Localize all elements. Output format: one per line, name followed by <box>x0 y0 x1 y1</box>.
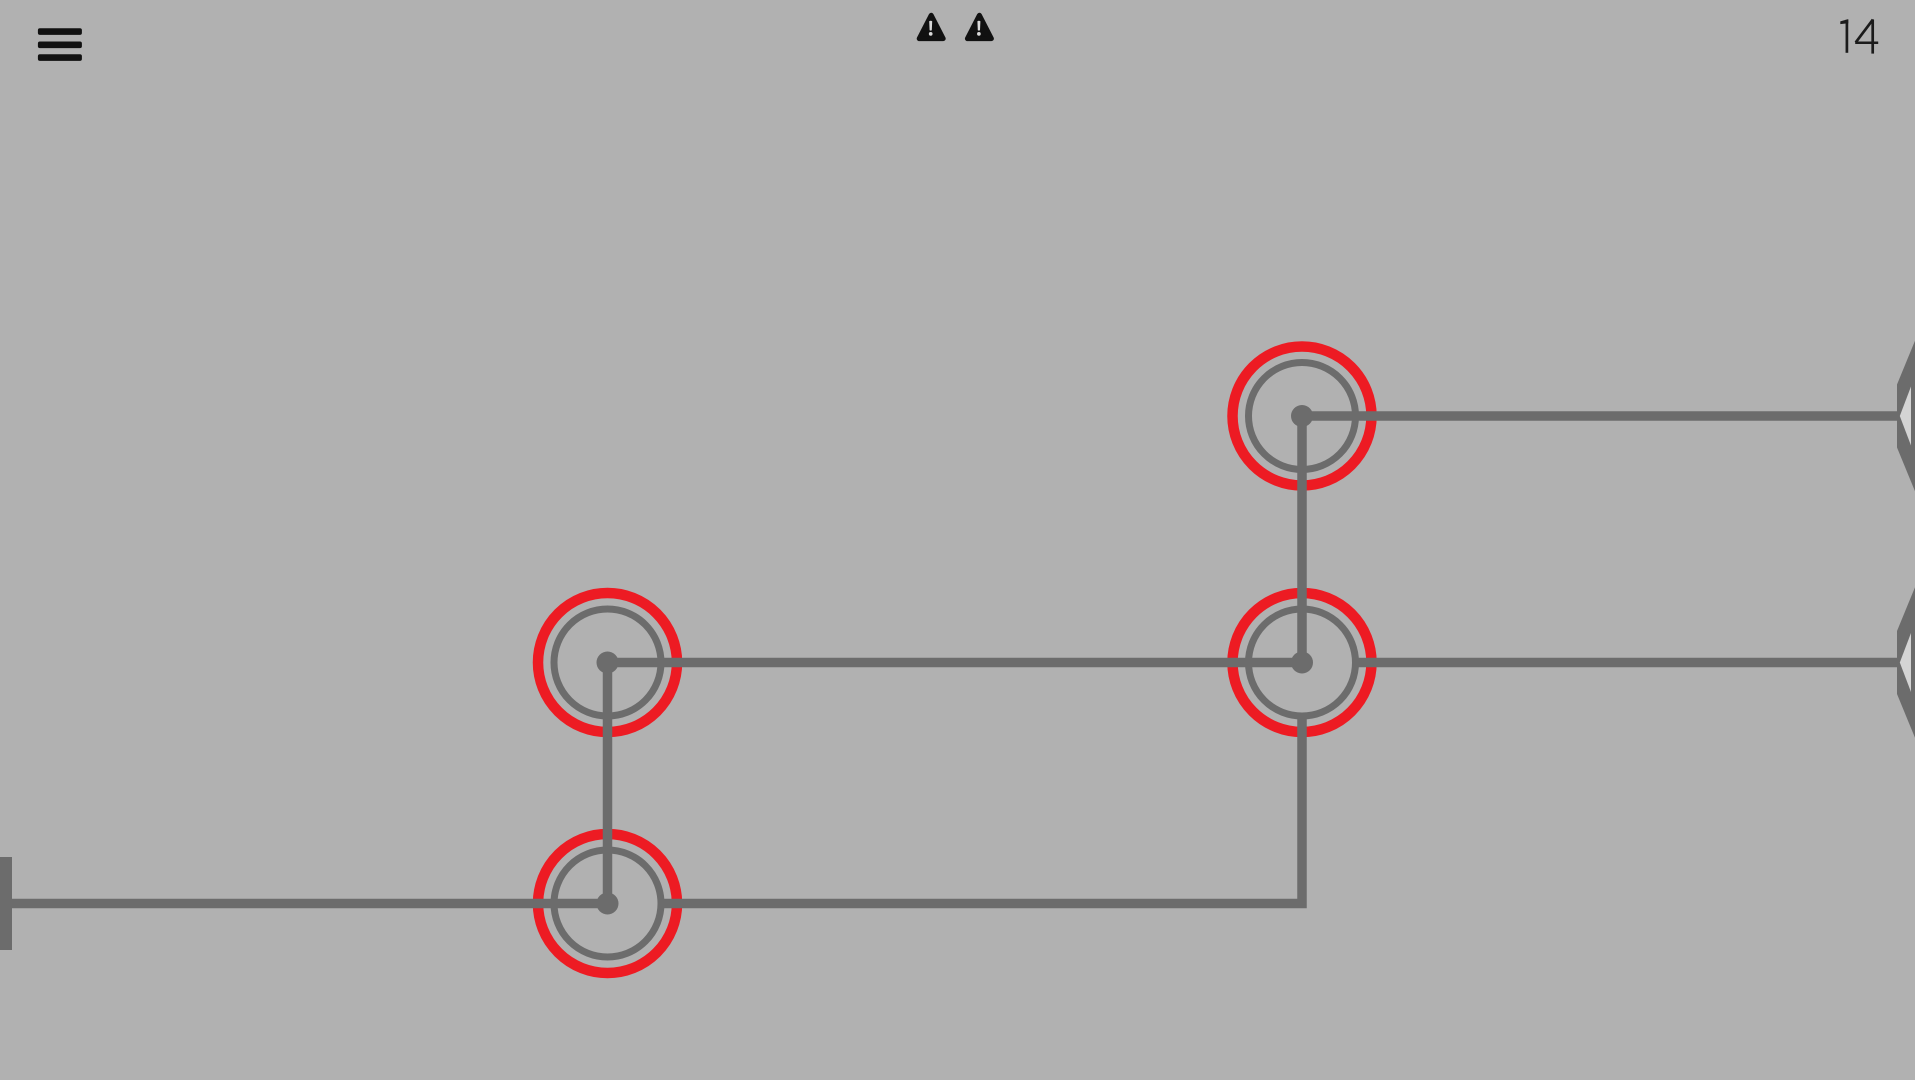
wire N1 dot to right chevron 1 <box>1302 411 1898 421</box>
left terminal bar <box>0 857 12 950</box>
wire terminal to N4 dot <box>0 899 608 909</box>
gray inner ring N4 <box>554 850 661 957</box>
wire N3 ring down, corner, to N4 ring <box>664 719 1302 904</box>
gray inner ring N3 <box>1249 609 1356 716</box>
chevron 1 light notch <box>1900 387 1911 446</box>
wire N2 dot to N4 dot <box>603 663 613 904</box>
gray inner ring N1 <box>1249 363 1356 470</box>
red ring node N4 (bottom-left) <box>538 834 677 973</box>
center dot N1 <box>1291 405 1313 427</box>
wire N3 ring to right chevron 2 <box>1358 658 1898 668</box>
wire N2 dot to N3 dot <box>608 658 1303 668</box>
chevron 2 light notch <box>1900 633 1911 692</box>
wire N1 dot to N3 dot <box>1297 416 1307 663</box>
red ring node N1 (top) <box>1233 347 1372 486</box>
warning triangle icon 1 <box>919 15 943 38</box>
red ring node N3 (middle-right) <box>1233 593 1372 732</box>
gray inner ring N2 <box>554 609 661 716</box>
level number 14 <box>1840 19 1878 53</box>
hamburger menu icon <box>38 28 82 61</box>
center dot N3 <box>1291 652 1313 674</box>
warning triangle icon 2 <box>967 15 991 38</box>
center dot N2 <box>597 652 619 674</box>
chevron 2 dark socket (right edge, middle) <box>1897 561 1915 765</box>
chevron 1 dark socket (right edge, top) <box>1897 314 1915 518</box>
red ring node N2 (middle-left) <box>538 593 677 732</box>
center dot N4 <box>597 893 619 915</box>
